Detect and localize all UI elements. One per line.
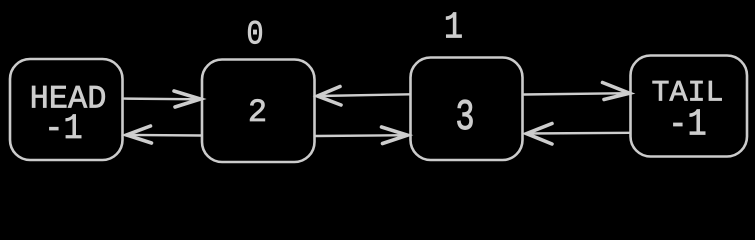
svg-text:3: 3 bbox=[455, 94, 474, 143]
arrow TAIL to 3 bbox=[527, 124, 630, 145]
node 2 box bbox=[202, 60, 315, 163]
node 3 box bbox=[411, 58, 523, 161]
arrow 2 to 3 bbox=[316, 127, 408, 144]
svg-text:1: 1 bbox=[444, 6, 463, 49]
node HEAD label bbox=[30, 81, 107, 150]
svg-text:0: 0 bbox=[246, 17, 263, 55]
arrow 3 to TAIL bbox=[524, 83, 630, 100]
svg-text:-1: -1 bbox=[668, 103, 706, 146]
arrow 3 to 2 bbox=[318, 87, 411, 106]
node TAIL label bbox=[651, 77, 723, 147]
node 3 label bbox=[455, 94, 474, 143]
arrow 2 to HEAD bbox=[127, 126, 202, 143]
arrow HEAD to 2 bbox=[124, 91, 201, 107]
svg-text:-1: -1 bbox=[44, 110, 82, 150]
node 2 label bbox=[248, 94, 267, 131]
node HEAD box bbox=[10, 59, 123, 160]
svg-text:2: 2 bbox=[248, 94, 267, 131]
node TAIL box bbox=[631, 56, 748, 157]
